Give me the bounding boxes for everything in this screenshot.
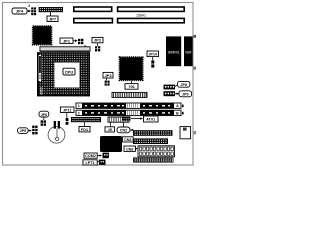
header CN7 (133, 157, 174, 162)
label CN3 (123, 137, 134, 142)
wire stem IR label (110, 122, 112, 126)
wire stem floppy label (84, 122, 86, 126)
label JP3 (103, 72, 113, 80)
svg-text:CN3: CN3 (124, 138, 131, 142)
label FD1 (79, 127, 90, 132)
svg-text:SIM: SIM (185, 50, 191, 54)
label CN2 (117, 122, 134, 133)
jumper J4 (31, 7, 36, 15)
label CN6 (124, 146, 138, 151)
svg-text:JP9: JP9 (182, 92, 189, 96)
svg-text:706: 706 (128, 85, 134, 89)
IR connector (108, 117, 129, 122)
svg-text:CN2: CN2 (120, 129, 127, 133)
I/O chip U4 (100, 136, 122, 152)
DIMM socket 1 (76, 103, 184, 108)
svg-text:CN6: CN6 (126, 147, 133, 151)
floppy connector (71, 117, 101, 122)
chipset U3 (120, 57, 143, 80)
connector J2 (180, 127, 196, 139)
ISA slot 1 segment A (73, 6, 113, 12)
svg-text:JP6: JP6 (41, 113, 48, 117)
svg-text:CPU: CPU (65, 70, 74, 75)
svg-text:2: 2 (28, 4, 30, 8)
CPU label box (63, 68, 75, 75)
label LPT1 (83, 160, 101, 165)
label JP1 (60, 38, 78, 43)
label JP7 (47, 16, 58, 22)
svg-text:COM2: COM2 (85, 154, 96, 158)
jumper COM2 (103, 153, 109, 159)
label JP2 (92, 37, 103, 46)
svg-text:SIMM1: SIMM1 (168, 50, 180, 54)
jumper JP3 (105, 81, 110, 86)
SIMM label pair 2 (164, 91, 192, 97)
svg-text:JP4: JP4 (16, 9, 24, 14)
svg-text:JP7: JP7 (49, 16, 57, 21)
svg-text:JP11: JP11 (63, 108, 71, 112)
svg-text:JP14: JP14 (148, 52, 158, 56)
jumper JP11 (66, 118, 69, 125)
jumper JP1 (78, 39, 86, 49)
SIMM bank 1 (166, 36, 181, 66)
label JP4 (12, 4, 31, 14)
jumper JP14 (151, 60, 154, 67)
label JP14 (147, 51, 159, 60)
ISA slot 2 segment B (117, 18, 185, 24)
svg-text:ATX1: ATX1 (146, 118, 155, 122)
svg-text:JP3: JP3 (104, 73, 112, 78)
svg-text:JP1: JP1 (63, 38, 71, 43)
battery BT1 (48, 121, 65, 143)
label JP11 (60, 107, 74, 118)
ISA slot 1 segment B (117, 6, 185, 12)
svg-text:1: 1 (78, 104, 80, 108)
wire stem to JP7 label (50, 12, 52, 16)
chipset label (125, 81, 138, 89)
svg-text:J5: J5 (108, 128, 112, 132)
svg-text:FD1: FD1 (81, 128, 88, 132)
board outline (3, 3, 194, 166)
panel header block (138, 146, 174, 157)
header CN5 (133, 138, 168, 144)
ISA slot 2 segment A (73, 18, 113, 24)
svg-text:JP5: JP5 (20, 129, 27, 133)
connector under chipset (112, 92, 147, 97)
connector mark top right (194, 35, 197, 38)
svg-text:A: A (176, 104, 179, 108)
jumper JP5 (32, 126, 37, 135)
svg-text:JP2: JP2 (94, 38, 102, 43)
svg-text:15841: 15841 (136, 14, 146, 18)
svg-text:B: B (176, 111, 179, 115)
jumper LPT1 (99, 160, 106, 165)
jumper JP10 (41, 120, 46, 125)
power jumper block (122, 116, 143, 120)
jumper JP2 (95, 46, 100, 51)
SIMM bank 2 (184, 36, 193, 66)
SIMM label pair 1 (164, 81, 190, 89)
label JP10 (39, 111, 49, 120)
connector mark right (194, 67, 197, 70)
fan connector bar (40, 47, 90, 52)
label J5 (105, 127, 115, 132)
svg-text:JP8: JP8 (180, 83, 187, 87)
CPU socket U1 (37, 52, 90, 96)
label COM2 (84, 153, 102, 158)
svg-text:AMD: AMD (40, 86, 44, 94)
svg-text:LPT1: LPT1 (85, 161, 94, 165)
label ATX (144, 116, 159, 122)
pin header CN1 (39, 7, 63, 12)
header CN4 (133, 130, 173, 136)
QFP chip U2 (33, 26, 52, 44)
label JP5 (18, 128, 32, 134)
svg-text:2: 2 (78, 111, 80, 115)
DIMM socket 2 (76, 110, 184, 115)
ZIF lever channel (39, 55, 42, 81)
